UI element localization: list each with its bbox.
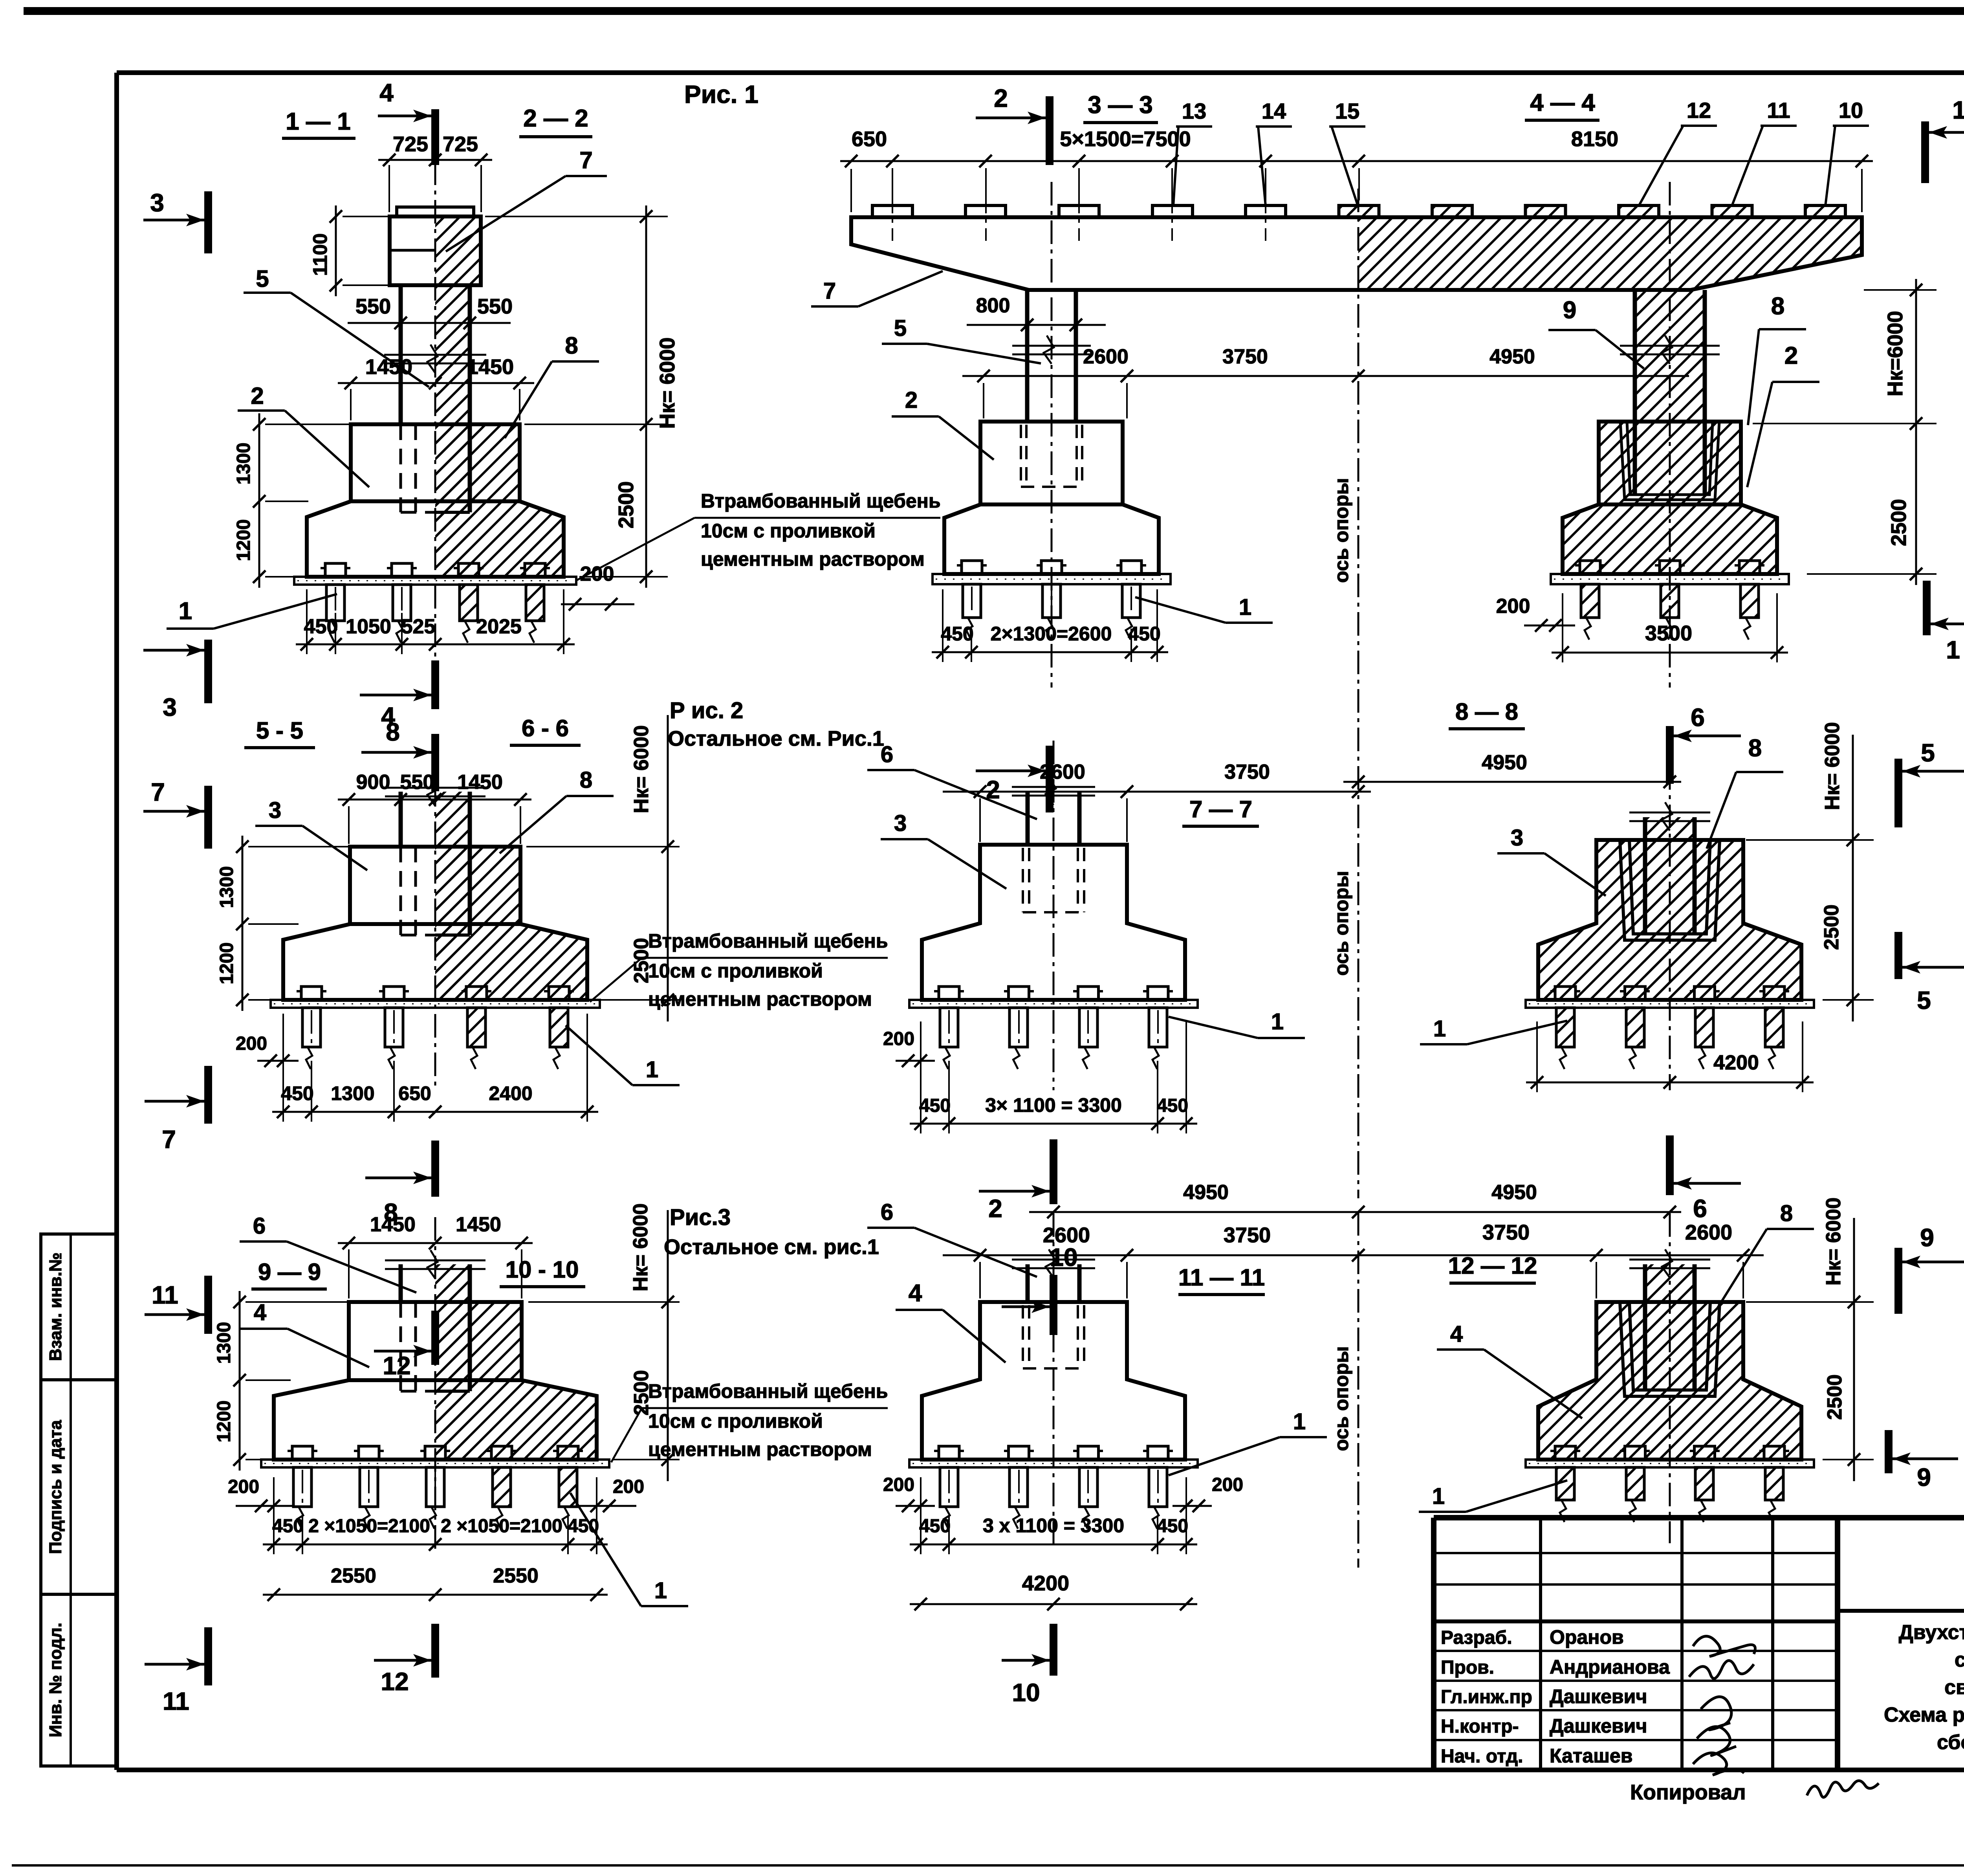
- svg-text:450: 450: [941, 623, 973, 645]
- svg-text:свайном основании.: свайном основании.: [1944, 1676, 1964, 1699]
- svg-text:450: 450: [919, 1516, 951, 1537]
- svg-text:5×1500=7500: 5×1500=7500: [1060, 127, 1191, 151]
- svg-text:7: 7: [579, 147, 592, 173]
- svg-text:Н.контр-: Н.контр-: [1441, 1716, 1519, 1737]
- svg-text:Взам. инв.№: Взам. инв.№: [46, 1253, 65, 1361]
- svg-text:10см с проливкой: 10см с проливкой: [648, 1410, 823, 1432]
- svg-text:7 — 7: 7 — 7: [1189, 796, 1252, 822]
- svg-text:Нк=6000: Нк=6000: [1883, 311, 1907, 396]
- drawing frame: [117, 70, 1964, 75]
- svg-text:8 — 8: 8 — 8: [1455, 699, 1518, 725]
- svg-text:Р ис. 2: Р ис. 2: [670, 698, 743, 723]
- svg-text:6: 6: [253, 1213, 266, 1239]
- svg-text:Оранов: Оранов: [1550, 1626, 1624, 1648]
- svg-text:9 — 9: 9 — 9: [258, 1259, 321, 1285]
- svg-text:4200: 4200: [1713, 1051, 1759, 1074]
- svg-text:200: 200: [613, 1476, 644, 1497]
- svg-text:450: 450: [1157, 1095, 1188, 1116]
- svg-text:Двухстоечная опора Нк= 6,0м: Двухстоечная опора Нк= 6,0м: [1899, 1621, 1964, 1644]
- svg-text:1450: 1450: [456, 1213, 501, 1236]
- svg-text:10: 10: [1050, 1243, 1077, 1271]
- svg-text:450: 450: [272, 1516, 304, 1537]
- svg-text:Андрианова: Андрианова: [1550, 1656, 1670, 1678]
- svg-text:Подпись и дата: Подпись и дата: [46, 1420, 65, 1554]
- svg-text:Инв. № подл.: Инв. № подл.: [46, 1623, 65, 1737]
- svg-text:3750: 3750: [1482, 1221, 1530, 1244]
- svg-text:3500: 3500: [1645, 622, 1692, 645]
- svg-text:725: 725: [393, 132, 428, 156]
- svg-text:200: 200: [1212, 1474, 1243, 1495]
- svg-text:8: 8: [386, 718, 400, 746]
- svg-text:4: 4: [379, 79, 394, 107]
- svg-text:2 ×1050=2100: 2 ×1050=2100: [308, 1516, 430, 1537]
- svg-text:4200: 4200: [1022, 1572, 1069, 1595]
- svg-text:Нк= 6000: Нк= 6000: [630, 725, 653, 813]
- svg-text:1200: 1200: [216, 943, 237, 985]
- svg-text:12: 12: [1687, 98, 1711, 123]
- svg-text:450: 450: [919, 1095, 951, 1116]
- svg-text:8: 8: [565, 332, 578, 359]
- svg-text:550: 550: [400, 771, 434, 794]
- svg-text:3750: 3750: [1222, 345, 1268, 368]
- svg-text:200: 200: [228, 1476, 259, 1497]
- svg-text:12 — 12: 12 — 12: [1448, 1253, 1537, 1279]
- svg-text:6: 6: [1693, 1194, 1707, 1223]
- svg-text:3: 3: [269, 798, 281, 823]
- svg-text:7: 7: [151, 778, 165, 806]
- svg-text:цементным раствором: цементным раствором: [701, 548, 925, 570]
- svg-text:550: 550: [477, 295, 513, 318]
- svg-text:цементным раствором: цементным раствором: [648, 1438, 872, 1460]
- svg-text:2500: 2500: [1823, 1374, 1846, 1420]
- svg-text:5: 5: [256, 266, 269, 292]
- view 7-7 foundation elevation: [1026, 792, 1030, 845]
- svg-text:450: 450: [304, 615, 338, 638]
- svg-text:525: 525: [401, 615, 436, 638]
- svg-text:2600: 2600: [1040, 761, 1085, 783]
- svg-text:2: 2: [251, 383, 264, 409]
- svg-text:7: 7: [162, 1125, 176, 1153]
- svg-text:2 ×1050=2100: 2 ×1050=2100: [441, 1516, 562, 1537]
- svg-text:1450: 1450: [370, 1213, 416, 1236]
- svg-text:900: 900: [356, 771, 390, 794]
- svg-text:12: 12: [383, 1352, 410, 1380]
- svg-text:1300: 1300: [216, 866, 237, 908]
- svg-text:1: 1: [1952, 96, 1964, 124]
- svg-text:7: 7: [823, 278, 836, 304]
- svg-text:Втрамбованный щебень: Втрамбованный щебень: [648, 1380, 888, 1402]
- svg-text:650: 650: [852, 127, 887, 151]
- svg-text:2600: 2600: [1685, 1221, 1732, 1244]
- svg-text:5: 5: [1917, 986, 1931, 1014]
- svg-text:10см с проливкой: 10см с проливкой: [701, 520, 876, 542]
- svg-text:2: 2: [994, 84, 1008, 112]
- svg-text:ось опоры: ось опоры: [1330, 1346, 1352, 1451]
- title block: [1434, 1515, 1964, 1520]
- right pier 4-4 section: [1635, 290, 1705, 422]
- svg-text:1: 1: [1293, 1409, 1306, 1434]
- svg-text:6 - 6: 6 - 6: [522, 715, 569, 741]
- page top scan bar: [24, 7, 1964, 15]
- svg-text:3: 3: [1511, 825, 1523, 851]
- svg-text:15: 15: [1335, 99, 1359, 123]
- svg-text:ось опоры: ось опоры: [1330, 478, 1352, 583]
- svg-text:5 - 5: 5 - 5: [256, 717, 303, 744]
- svg-text:8: 8: [1771, 293, 1784, 320]
- svg-text:2500: 2500: [1887, 499, 1911, 546]
- svg-text:Втрамбованный щебень: Втрамбованный щебень: [701, 490, 941, 512]
- svg-text:6: 6: [881, 742, 893, 767]
- svg-text:200: 200: [883, 1474, 914, 1495]
- svg-text:1200: 1200: [233, 519, 254, 561]
- svg-text:Втрамбованный щебень: Втрамбованный щебень: [648, 930, 888, 952]
- svg-text:650: 650: [398, 1082, 431, 1104]
- svg-text:8: 8: [1748, 735, 1762, 762]
- svg-text:1: 1: [1432, 1484, 1445, 1509]
- svg-text:3: 3: [150, 189, 164, 217]
- svg-text:Нк= 6000: Нк= 6000: [629, 1203, 652, 1291]
- svg-text:3750: 3750: [1224, 1223, 1271, 1247]
- svg-text:450: 450: [1157, 1516, 1188, 1537]
- svg-text:8: 8: [580, 767, 592, 793]
- svg-text:2: 2: [905, 387, 918, 413]
- svg-text:Нк= 6000: Нк= 6000: [656, 337, 679, 429]
- svg-text:11: 11: [152, 1281, 178, 1309]
- svg-text:2600: 2600: [1083, 345, 1129, 368]
- svg-text:1 — 1: 1 — 1: [286, 108, 350, 135]
- svg-text:2×1300=2600: 2×1300=2600: [991, 623, 1112, 645]
- svg-text:200: 200: [883, 1029, 914, 1049]
- svg-text:сборных конструкций: сборных конструкций: [1937, 1731, 1964, 1754]
- svg-text:9: 9: [1920, 1223, 1934, 1252]
- svg-text:Остальное см. Рис.1: Остальное см. Рис.1: [668, 727, 884, 750]
- svg-text:4950: 4950: [1482, 751, 1527, 774]
- left sidebar: Взам.инв.№ / Подпись и дата / Инв.№ подл.: [41, 1234, 117, 1380]
- svg-text:Рис.3: Рис.3: [670, 1205, 731, 1230]
- svg-text:3: 3: [894, 811, 907, 836]
- svg-text:5: 5: [894, 315, 907, 341]
- svg-text:4950: 4950: [1489, 345, 1535, 368]
- svg-text:8150: 8150: [1571, 127, 1618, 151]
- svg-text:11 — 11: 11 — 11: [1178, 1264, 1265, 1291]
- svg-text:3: 3: [163, 693, 177, 721]
- svg-text:1300: 1300: [214, 1322, 235, 1364]
- svg-text:Нач. отд.: Нач. отд.: [1441, 1746, 1523, 1767]
- svg-text:9: 9: [1563, 297, 1576, 324]
- view 12-12 foundation full section: [1538, 1302, 1801, 1460]
- svg-text:1450: 1450: [457, 771, 503, 794]
- svg-text:3750: 3750: [1224, 761, 1270, 783]
- svg-text:6: 6: [881, 1199, 893, 1225]
- svg-text:11: 11: [1767, 98, 1790, 123]
- svg-text:Нк= 6000: Нк= 6000: [1822, 1197, 1845, 1286]
- svg-text:4 — 4: 4 — 4: [1530, 89, 1595, 116]
- svg-text:1: 1: [1271, 1009, 1284, 1034]
- view 1-1 / 2-2 pier column section: [435, 424, 520, 501]
- svg-text:200: 200: [1496, 595, 1530, 618]
- svg-text:Рис. 1: Рис. 1: [684, 80, 758, 108]
- svg-text:цементным раствором: цементным раствором: [648, 988, 872, 1010]
- svg-text:800: 800: [976, 294, 1010, 317]
- svg-text:2 — 2: 2 — 2: [523, 105, 588, 132]
- svg-text:Нк= 6000: Нк= 6000: [1821, 722, 1844, 810]
- svg-text:5: 5: [1921, 739, 1935, 767]
- svg-text:1: 1: [179, 598, 192, 625]
- svg-text:Остальное см. рис.1: Остальное см. рис.1: [664, 1235, 879, 1259]
- svg-text:6: 6: [1691, 703, 1705, 732]
- svg-text:200: 200: [236, 1033, 267, 1054]
- Рис.1 deck elevation 3-3 / 4-4: [1358, 217, 1862, 290]
- svg-text:1050: 1050: [346, 615, 391, 638]
- svg-text:Гл.инж.пр: Гл.инж.пр: [1441, 1687, 1532, 1707]
- svg-text:Дашкевич: Дашкевич: [1550, 1715, 1647, 1737]
- svg-text:200: 200: [580, 563, 614, 585]
- svg-text:4: 4: [909, 1280, 922, 1307]
- svg-text:Дашкевич: Дашкевич: [1550, 1685, 1647, 1707]
- left pier 3-3: [1025, 290, 1030, 422]
- svg-text:550: 550: [355, 295, 391, 318]
- svg-text:2550: 2550: [493, 1564, 539, 1587]
- svg-text:3 — 3: 3 — 3: [1088, 92, 1152, 119]
- svg-text:3× 1100 = 3300: 3× 1100 = 3300: [985, 1094, 1122, 1116]
- svg-text:с фундаментом на: с фундаментом на: [1955, 1649, 1964, 1671]
- svg-text:14: 14: [1262, 99, 1286, 123]
- svg-text:2025: 2025: [476, 615, 522, 638]
- svg-text:3 x 1100 = 3300: 3 x 1100 = 3300: [983, 1515, 1124, 1537]
- svg-text:10: 10: [1012, 1678, 1040, 1707]
- svg-text:Разраб.: Разраб.: [1441, 1627, 1512, 1648]
- svg-text:725: 725: [443, 132, 478, 156]
- svg-text:2: 2: [1784, 342, 1798, 369]
- svg-text:11: 11: [163, 1687, 189, 1715]
- svg-text:4: 4: [254, 1300, 266, 1325]
- svg-text:2550: 2550: [331, 1564, 376, 1587]
- svg-text:Пров.: Пров.: [1441, 1657, 1494, 1678]
- svg-text:Копировал: Копировал: [1630, 1781, 1746, 1804]
- svg-text:2: 2: [988, 1194, 1002, 1223]
- svg-text:1: 1: [1433, 1016, 1446, 1042]
- svg-text:1450: 1450: [467, 355, 514, 379]
- svg-text:1200: 1200: [214, 1401, 235, 1443]
- svg-text:Схема расположения элементов: Схема расположения элементов: [1884, 1704, 1964, 1726]
- svg-text:1: 1: [1946, 636, 1960, 664]
- svg-text:2500: 2500: [614, 481, 638, 528]
- view 5-5 / 6-6 foundation section: [435, 847, 520, 924]
- svg-text:450: 450: [281, 1082, 313, 1104]
- svg-text:10см с проливкой: 10см с проливкой: [648, 960, 823, 982]
- svg-text:4950: 4950: [1491, 1181, 1537, 1204]
- view 8-8 foundation full section: [1538, 840, 1801, 1000]
- svg-text:1300: 1300: [331, 1082, 374, 1104]
- svg-text:8: 8: [1780, 1201, 1793, 1226]
- svg-text:12: 12: [381, 1667, 409, 1696]
- svg-text:13: 13: [1182, 99, 1206, 123]
- svg-text:ось опоры: ось опоры: [1330, 871, 1352, 976]
- svg-text:450: 450: [1128, 623, 1160, 645]
- svg-text:2400: 2400: [489, 1082, 532, 1104]
- svg-text:2500: 2500: [1820, 904, 1843, 950]
- svg-text:4950: 4950: [1183, 1181, 1229, 1204]
- svg-text:1: 1: [1239, 594, 1251, 620]
- svg-text:1100: 1100: [309, 233, 331, 276]
- svg-text:1: 1: [646, 1057, 658, 1082]
- view 11-11 foundation elevation: [1026, 1264, 1030, 1302]
- svg-text:4: 4: [1450, 1321, 1463, 1347]
- svg-text:1: 1: [654, 1578, 667, 1603]
- svg-text:9: 9: [1917, 1463, 1931, 1491]
- svg-text:Каташев: Каташев: [1550, 1745, 1632, 1767]
- view 9-9 / 10-10 foundation section: [435, 1302, 522, 1380]
- svg-text:1300: 1300: [233, 443, 254, 485]
- svg-text:10 - 10: 10 - 10: [506, 1256, 579, 1283]
- svg-text:10: 10: [1839, 98, 1863, 123]
